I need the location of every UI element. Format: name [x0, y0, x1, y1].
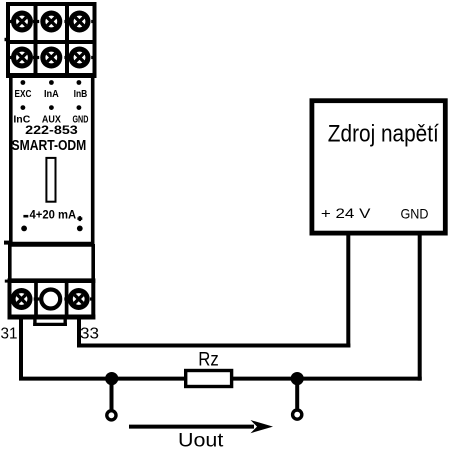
screw terminal 31 (bottom left): [11, 288, 33, 310]
DIN rail clip tick lower left: [4, 241, 9, 245]
screw terminal pin AUX (top row 2 col 2): [40, 47, 62, 69]
output dot plus: [77, 226, 83, 232]
wire from terminal 31 down: [19, 320, 23, 379]
slot window: [46, 158, 55, 202]
middle terminal tab: [33, 320, 67, 327]
label minus polarity: [23, 215, 28, 218]
DIN rail clip tick at lower block: [5, 280, 9, 283]
probe terminal node A open circle: [107, 411, 116, 420]
svg-text:InB: InB: [74, 89, 88, 100]
LED dot EXC: [21, 80, 26, 85]
arrow Uout direction: [129, 420, 273, 433]
svg-text:Uout: Uout: [178, 430, 224, 449]
svg-text:4+20 mA: 4+20 mA: [30, 208, 77, 222]
wire GND vertical: [418, 235, 422, 380]
module body bottom thick edge: [8, 242, 95, 247]
resistor Rz: [186, 371, 232, 387]
probe terminal node B open circle: [293, 410, 302, 419]
label plus polarity: [77, 216, 82, 221]
svg-text:31: 31: [1, 325, 18, 342]
svg-text:33: 33: [80, 325, 99, 342]
terminal clamp ticks row 2: [8, 56, 95, 59]
svg-text:Rz: Rz: [198, 349, 219, 371]
wire horizontal bottom net: [19, 377, 422, 381]
probe wire node B: [295, 379, 299, 409]
LED dot GND: [77, 105, 82, 110]
LED dot InC: [21, 105, 26, 110]
module U1 body outline: [11, 76, 93, 244]
output dot minus: [21, 226, 27, 232]
LED dot InB: [77, 80, 82, 85]
svg-text:Zdroj napětí: Zdroj napětí: [328, 120, 439, 147]
junction node B (right): [291, 372, 304, 385]
DIN rail clip tick upper left: [5, 38, 10, 41]
screw terminal 33 (bottom right): [68, 288, 90, 310]
junction node A (left): [105, 372, 118, 385]
LED dot AUX: [49, 105, 54, 110]
wire from terminal 33 down: [77, 320, 81, 346]
screw terminal pin InA (top row 1 col 2): [40, 11, 62, 33]
svg-text:InA: InA: [44, 89, 59, 100]
svg-text:SMART-ODM: SMART-ODM: [12, 138, 87, 154]
LED dot InA: [49, 80, 54, 85]
svg-text:GND: GND: [401, 205, 429, 221]
probe wire node A: [110, 379, 114, 410]
screw terminal pin InB (top row 1 col 3): [69, 11, 91, 33]
bottom terminal block frame: [8, 279, 96, 320]
svg-text:222-853: 222-853: [25, 123, 78, 137]
open terminal 32 (bottom middle): [41, 290, 60, 309]
terminal clamp ticks row 1: [8, 20, 95, 23]
screw terminal pin GND (top row 2 col 3): [69, 47, 91, 69]
screw terminal pin InC (top row 2 col 1): [11, 47, 33, 69]
terminal clamp ticks bottom row: [10, 297, 94, 300]
svg-text:+ 24 V: + 24 V: [321, 205, 371, 221]
wire 33 to +24V horizontal: [77, 344, 350, 348]
lower section side walls: [10, 244, 93, 282]
screw terminal pin EXC (top row 1 col 1): [11, 11, 33, 33]
module U1 SMART-ODM top terminal block frame: [6, 2, 97, 78]
wire +24V vertical: [346, 235, 350, 347]
svg-text:EXC: EXC: [15, 89, 32, 100]
voltage source box Zdroj napeti: [312, 101, 445, 233]
